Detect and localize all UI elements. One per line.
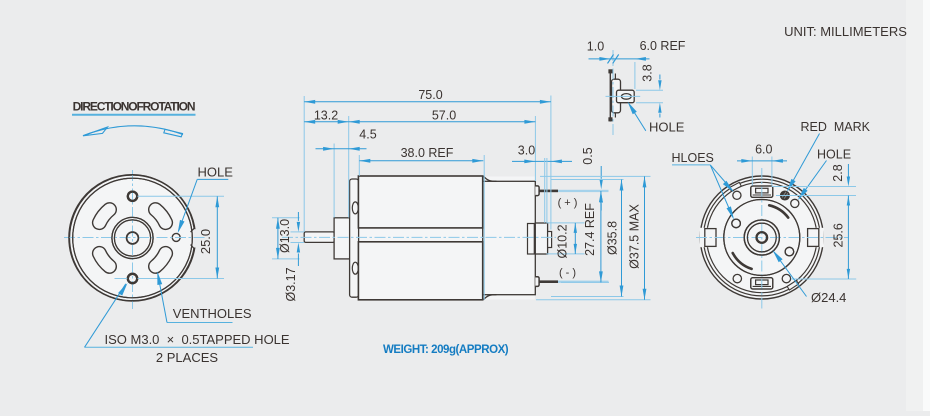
side view: rear boss stub [548,232,552,248]
front view: vent slot ESE [156,253,166,266]
front view: hub outer circle [112,217,153,258]
svg-text:RED MARK: RED MARK [801,120,871,134]
dim Ø37.5 MAX [540,175,651,177]
svg-text:6.0: 6.0 [755,143,772,157]
side view: endcap shoulder bottom [484,295,497,300]
side view: shaft [304,232,334,243]
side view: terminal strip bottom (-) [539,280,558,283]
dim 4.5 [333,144,335,218]
svg-text:HLOES: HLOES [672,151,714,165]
dim 75.0 [303,96,305,232]
svg-text:75.0: 75.0 [418,88,442,102]
svg-text:0.5: 0.5 [581,147,595,164]
front view: motor end cap outer rim [70,175,196,301]
rear view: red mark dot [781,191,790,200]
side view: can top half [358,176,482,228]
svg-text:Ø35.8: Ø35.8 [606,221,620,255]
svg-text:Ø13.0: Ø13.0 [278,219,292,253]
rear view: hole mid-right [785,247,794,256]
rear view: screw hole top-right [791,199,799,207]
rear view: boss outer [744,220,779,255]
side view: front endbell strip [350,179,359,297]
rear view: terminal block top [751,186,773,197]
front view: shaft hole [127,232,139,244]
svg-text:2 PLACES: 2 PLACES [156,350,218,365]
svg-text:HOLE: HOLE [649,120,685,135]
rear view: vent arc bottom-left [733,253,752,269]
svg-text:Ø3.17: Ø3.17 [284,267,298,301]
rear view: re-stroke over centerlines [724,200,800,276]
detail dim 3.8 [636,89,663,91]
dim Ø13.0 [272,217,300,219]
rear view: terminal block bottom [751,278,773,289]
svg-text:25.0: 25.0 [198,229,213,254]
side view: bearing pocket inner rect [528,224,535,255]
rear view: brush card circle [724,200,800,276]
side view: endbell tab bottom [352,262,358,274]
side view: endbell tab top [352,202,358,214]
svg-text:2.8: 2.8 [831,164,845,181]
front view: centerline vertical [132,170,134,309]
front view: dimension 25.0 [138,195,225,197]
side view: endcap shoulder top [484,176,497,181]
rear view: hole bottom-left [733,274,741,282]
rear dim 25.6 [791,278,856,280]
svg-text:13.2: 13.2 [314,108,338,122]
svg-text:57.0: 57.0 [432,108,456,122]
front view: vent slot WSW [99,253,109,266]
rear view: rim ring 3 [707,182,817,292]
side view: shaft centerline [282,236,556,238]
front view: centerline horizontal [64,237,207,239]
svg-text:4.5: 4.5 [359,127,376,141]
front view: vent slot NE [156,210,166,223]
side view: bushing [334,218,350,259]
detail dim 1.0 / 6.0 REF [589,58,650,60]
dim Ø3.17 [291,231,305,233]
svg-text:( + ): ( + ) [558,197,578,209]
detail view: terminal hole [621,94,631,100]
side view: terminal strip top (+) [539,190,558,193]
front view: rim notch at 3 oclock [191,228,195,232]
rear view: outer rim [700,176,823,299]
detail view: terminal clip [612,79,621,113]
detail view: terminal tab [617,90,635,103]
svg-text:VENTHOLES: VENTHOLES [173,306,252,321]
svg-text:( - ): ( - ) [559,267,576,279]
svg-text:3.8: 3.8 [641,64,655,81]
dim Ø10.2 [547,222,585,224]
rear view: boss inner [747,223,776,252]
rear view: rim mark top-left [730,182,742,191]
dim 57.0 [534,116,536,181]
front view: small hole right [172,233,180,241]
side view: terminal bracket top [535,186,539,196]
front view: vent slot NW [99,210,109,223]
front view: rotation direction curved arrow [83,126,183,136]
svg-text:WEIGHT: 209g(APPROX): WEIGHT: 209g(APPROX) [383,344,509,356]
svg-text:Ø37.5 MAX: Ø37.5 MAX [628,204,642,269]
svg-text:38.0 REF: 38.0 REF [401,146,454,160]
side view: endcap body [483,181,536,294]
front view: tapped hole bottom [128,274,137,283]
svg-text:HOLE: HOLE [198,165,234,180]
svg-text:Ø24.4: Ø24.4 [811,290,846,305]
rear view: hole bottom-right [782,274,790,282]
dim 13.2 [348,116,350,218]
svg-text:27.4 REF: 27.4 REF [583,203,597,256]
rear view: hole mid-left [732,219,741,228]
svg-text:ISO M3.0 × 0.5TAPPED HOLE: ISO M3.0 × 0.5TAPPED HOLE [105,332,290,347]
svg-text:1.0: 1.0 [587,40,604,54]
rear view: centerline vertical [761,168,763,310]
rear view: centerline horizontal [696,237,848,239]
rear view: side tab left [700,228,717,247]
side view: can bottom half [358,242,482,300]
dim 3.0 [512,160,572,162]
svg-text:6.0 REF: 6.0 REF [640,39,686,53]
front view: notch erase [193,229,200,247]
detail view: endcap plate edge [609,70,611,122]
rear dim 6.0 [751,157,753,186]
front view: hub inner circle [114,220,150,256]
side view: terminal bracket bottom [535,277,539,287]
dim 38.0 REF [358,155,360,176]
side view: rear bearing boss [535,223,547,254]
svg-text:25.6: 25.6 [831,223,845,247]
front view: tapped hole top [128,192,137,201]
side view: body underlay [350,177,535,300]
dim 0.5 [600,166,602,179]
svg-text:3.0: 3.0 [518,144,535,158]
rear view: shaft end [757,232,768,243]
detail view: centerlines [606,95,641,97]
rear view: rim mark bottom-right [787,280,799,290]
svg-text:DIRECTIONOFROTATION: DIRECTIONOFROTATION [73,100,195,114]
rear view: side tab right [807,228,824,247]
dim Ø35.8 [551,179,624,181]
front view: re-stroke circles over centerlines [69,175,194,301]
rear view: rim ring 2 [703,179,820,296]
rear dim 2.8 [772,186,857,188]
front view: motor end cap inner rim [73,178,193,298]
svg-text:UNIT: MILLIMETERS: UNIT: MILLIMETERS [784,24,907,39]
svg-text:HOLE: HOLE [817,148,851,162]
svg-text:Ø10.2: Ø10.2 [556,224,570,258]
dim 27.4 REF [561,281,609,283]
rear view: screw hole top-left [733,191,741,199]
rear view: vent arc top-right [769,205,788,217]
